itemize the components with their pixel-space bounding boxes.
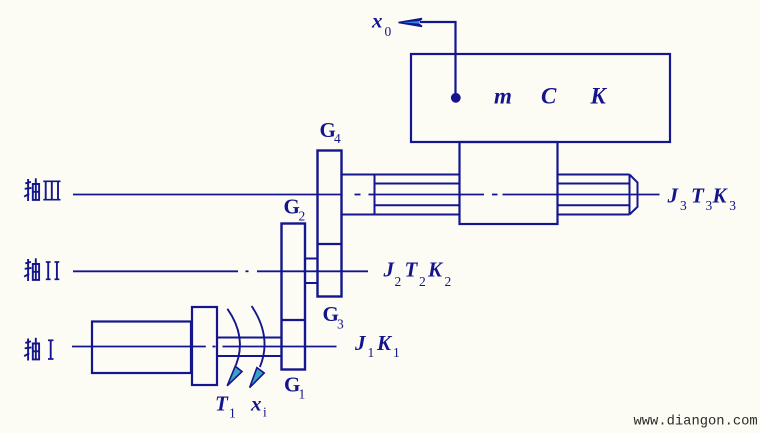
arrowhead xi: [250, 368, 265, 388]
flexible coupling arc 1 (torque T1): [227, 309, 240, 366]
shaft label 轴II: [24, 258, 59, 281]
svg-text:K: K: [590, 84, 608, 109]
label J2 T2 K2: [383, 258, 452, 289]
motor flange / coupling: [192, 307, 217, 385]
svg-text:www.diangon.com: www.diangon.com: [634, 414, 758, 430]
label G1: [284, 372, 305, 401]
label G3: [323, 302, 345, 332]
svg-text:J: J: [354, 331, 367, 355]
svg-text:T: T: [405, 258, 419, 282]
motor body on shaft I: [92, 322, 191, 374]
svg-text:1: 1: [368, 345, 375, 360]
svg-text:x: x: [371, 9, 383, 33]
ball screw nut block under table: [460, 142, 558, 224]
shaft I between coupling and gear G1: [217, 338, 282, 357]
svg-text:T: T: [691, 184, 705, 208]
label G4: [320, 118, 342, 146]
machine table box (mass m, damping C, stiffness K): [411, 54, 670, 142]
svg-text:1: 1: [229, 406, 236, 421]
shaft label 轴III: [24, 178, 60, 201]
svg-text:J: J: [667, 184, 680, 208]
svg-text:1: 1: [393, 345, 400, 360]
svg-text:3: 3: [706, 198, 713, 213]
shaft III plain section and spline (ball screw) left of nut: [342, 175, 460, 215]
shaft II axis line: [73, 270, 368, 272]
label T1: [215, 392, 236, 421]
svg-text:K: K: [376, 331, 393, 355]
label x0 (output displacement): [371, 9, 392, 40]
svg-text:T: T: [215, 392, 229, 416]
svg-text:2: 2: [419, 274, 426, 289]
svg-text:3: 3: [337, 316, 344, 331]
node dot on mass m: [451, 93, 461, 103]
svg-text:G: G: [284, 195, 300, 219]
svg-text:1: 1: [299, 386, 306, 401]
gear column G2/G1 on shaft II and I: [282, 224, 306, 370]
svg-text:x: x: [250, 392, 262, 416]
label G2: [284, 195, 306, 224]
svg-text:m: m: [494, 84, 512, 109]
arrow x0 pointing left: [399, 19, 423, 27]
division between G4 and G3: [318, 243, 342, 245]
svg-text:2: 2: [395, 274, 402, 289]
gear column G4/G3 on shaft III: [318, 151, 342, 297]
flexible coupling arc 2 (input xi): [252, 306, 265, 367]
svg-text:K: K: [427, 258, 444, 282]
svg-text:2: 2: [445, 274, 452, 289]
shaft I axis line: [72, 346, 337, 348]
svg-text:2: 2: [299, 208, 306, 223]
svg-text:C: C: [541, 84, 557, 109]
svg-text:K: K: [712, 184, 729, 208]
division between G2 and G1: [282, 319, 306, 321]
label J3 T3 K3: [667, 184, 737, 214]
shaft III spline right of nut: [558, 175, 631, 215]
arrowhead T1: [227, 366, 242, 386]
shaft III axis line: [73, 194, 660, 196]
label J1 K1: [354, 331, 400, 360]
label xi: [250, 392, 267, 420]
shaft label 轴I: [24, 338, 53, 361]
wire from x0 arrow to pickup point: [420, 22, 456, 94]
svg-text:i: i: [263, 405, 267, 420]
svg-text:3: 3: [729, 198, 736, 213]
svg-text:0: 0: [385, 24, 392, 39]
svg-text:3: 3: [680, 198, 687, 213]
shaft III chamfered end cap: [630, 175, 638, 215]
hub between G2 and G3 on shaft II: [305, 259, 318, 284]
svg-text:4: 4: [334, 131, 341, 146]
